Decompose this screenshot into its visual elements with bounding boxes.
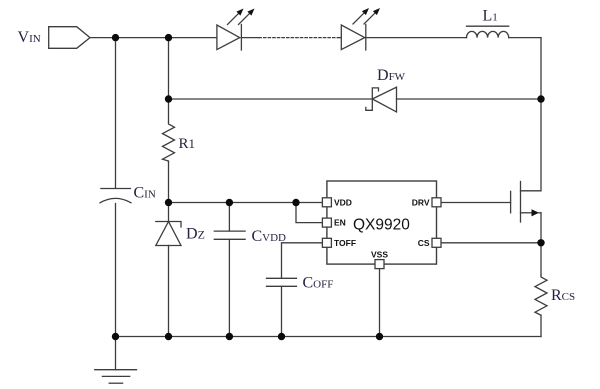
wire R1 to node C <box>168 162 170 203</box>
svg-text:VSS: VSS <box>371 250 388 260</box>
zener diode DZ <box>156 222 181 246</box>
wire node A to node B <box>116 37 169 39</box>
wire D2 cathode to L1 <box>366 37 467 39</box>
transistor Q1 <box>511 182 541 223</box>
pin VSS <box>375 260 384 269</box>
wire DFW rail left segment <box>169 98 373 100</box>
wire node C to DZ <box>168 203 170 222</box>
wire CS <box>441 242 541 244</box>
svg-text:R1: R1 <box>179 136 196 152</box>
wire CVDD branch upper <box>228 203 230 232</box>
node EN tap <box>292 199 299 206</box>
svg-text:DZ: DZ <box>186 226 205 243</box>
op-amp U1 QX9920 body <box>327 181 437 264</box>
wire node B to LED D1 anode <box>169 37 217 39</box>
resistor RCS <box>535 275 547 316</box>
pin TOFF <box>322 238 331 247</box>
wire COFF to ground rail <box>281 286 283 336</box>
wire to LED D2 anode <box>338 37 341 39</box>
wire TOFF branch <box>282 243 323 278</box>
wire VSS to ground rail <box>379 269 381 337</box>
wire DFW rail right segment <box>397 98 542 100</box>
wire EN branch <box>296 203 322 223</box>
pin VDD <box>322 198 331 207</box>
node CVDD tap <box>226 199 233 206</box>
node ground-VSS <box>376 333 383 340</box>
wire dashed LED string <box>259 37 338 39</box>
pin DRV <box>432 198 441 207</box>
svg-text:CS: CS <box>418 238 430 248</box>
svg-text:VDD: VDD <box>334 197 352 207</box>
wire ground rail <box>116 336 542 338</box>
node ground-DZ <box>165 333 172 340</box>
inductor L1 <box>467 26 509 37</box>
svg-text:EN: EN <box>334 218 346 228</box>
svg-text:CVDD: CVDD <box>252 228 287 245</box>
svg-text:L1: L1 <box>483 8 498 25</box>
capacitor CVDD <box>214 231 245 239</box>
LED D2 <box>341 8 380 50</box>
node L1-DFW junction <box>537 95 544 102</box>
node DFW tap <box>165 95 172 102</box>
svg-text:DRV: DRV <box>412 197 430 207</box>
svg-text:CIN: CIN <box>134 185 156 202</box>
wire node D to RCS <box>540 243 542 275</box>
capacitor COFF <box>267 278 297 286</box>
wire CVDD branch lower <box>228 239 230 336</box>
wire RCS to ground rail <box>540 315 542 336</box>
wire VDD rail <box>169 202 323 204</box>
wire L1 to right corner <box>509 37 541 39</box>
wire DZ to ground rail <box>168 246 170 337</box>
pin EN <box>322 218 331 227</box>
node ground-COFF <box>278 333 285 340</box>
wire VIN to node A <box>90 37 116 39</box>
node B <box>165 34 172 41</box>
wire node A down through CIN <box>115 38 117 189</box>
svg-text:TOFF: TOFF <box>334 238 356 248</box>
wire node B down to R1 <box>168 38 170 122</box>
svg-text:RCS: RCS <box>551 287 575 304</box>
resistor R1 <box>163 122 175 162</box>
svg-text:DFW: DFW <box>377 67 406 84</box>
svg-text:VIN: VIN <box>18 29 41 46</box>
LED D1 <box>217 9 255 51</box>
ground <box>95 337 137 384</box>
svg-text:COFF: COFF <box>303 275 334 292</box>
node A <box>112 34 119 41</box>
wire source down to node D <box>540 213 542 243</box>
pin CS <box>432 238 441 247</box>
wire CIN to ground rail <box>115 204 117 337</box>
diode DFW <box>366 87 397 112</box>
svg-text:QX9920: QX9920 <box>353 217 410 234</box>
node ground-CVDD <box>226 333 233 340</box>
VIN terminal <box>49 27 90 49</box>
node C <box>165 199 172 206</box>
node D source-CS junction <box>537 239 544 246</box>
capacitor CIN <box>100 189 131 203</box>
wire right vertical to MOSFET drain <box>521 38 542 191</box>
wire D1 cathode <box>241 37 259 39</box>
wire gate from DRV <box>441 202 511 204</box>
node ground-CIN <box>112 333 119 340</box>
